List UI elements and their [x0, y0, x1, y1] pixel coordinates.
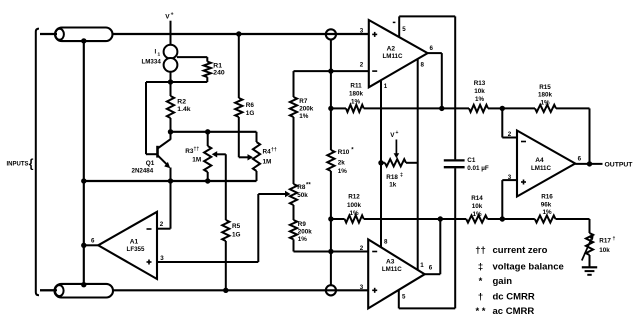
A2 pin2 wire [331, 70, 369, 72]
op-amp A1 LF355 [98, 212, 157, 279]
node string R11 [328, 106, 333, 111]
svg-text:R8: R8 [297, 184, 306, 191]
node I1 R1 R2 junction [168, 79, 173, 84]
ground [582, 266, 597, 268]
wire R1 bottom [206, 77, 208, 82]
svg-text:6: 6 [578, 155, 582, 162]
A2 pin 1 lead [380, 81, 382, 248]
svg-text:R6: R6 [246, 102, 255, 109]
A2 pin 5 lead [398, 16, 400, 36]
R17 arrow [582, 239, 592, 261]
svg-text:††: †† [194, 147, 200, 153]
A1 pin 3 wire [157, 261, 258, 263]
svg-text:10k: 10k [474, 88, 485, 95]
svg-text:1: 1 [158, 52, 161, 58]
svg-text:10k: 10k [472, 203, 483, 210]
svg-text:1G: 1G [246, 110, 255, 117]
resistor R10 2k [327, 150, 334, 171]
svg-text:†: † [478, 291, 483, 302]
svg-text:2k: 2k [338, 160, 346, 167]
svg-text:R4: R4 [263, 148, 272, 155]
op-amp A4 LM11C [517, 131, 575, 197]
svg-text:I: I [155, 49, 157, 56]
wire divider string lower [330, 171, 332, 285]
A4 plus sign [521, 181, 526, 183]
svg-text:R12: R12 [348, 194, 360, 201]
A3 pin5 feedback loop [399, 307, 455, 309]
svg-text:+: + [171, 12, 174, 18]
svg-text:200k: 200k [298, 229, 313, 236]
op-amp A3 LM11C [368, 239, 425, 308]
svg-text:voltage balance: voltage balance [493, 261, 564, 272]
node coax1 shield tap [81, 38, 86, 43]
svg-text:1: 1 [420, 262, 424, 269]
svg-text:dc CMRR: dc CMRR [493, 291, 535, 302]
wire R8 to R9 [293, 205, 295, 220]
node A3 output [438, 216, 443, 221]
node string R12 [328, 216, 333, 221]
svg-text:1%: 1% [298, 236, 308, 243]
svg-text:2N2484: 2N2484 [132, 168, 154, 175]
wire R7 to R8 [293, 117, 295, 184]
svg-text:1%: 1% [349, 210, 359, 217]
coax shield input 1 [55, 28, 113, 42]
svg-text:‡: ‡ [400, 172, 403, 178]
A2 minus sign [372, 70, 377, 72]
A3 plus sign [372, 289, 377, 291]
svg-text:R9: R9 [298, 221, 307, 228]
wire R9 bottom to A3 pin2 [293, 239, 295, 251]
A1 output wire [84, 244, 98, 246]
rheostat R17 [586, 233, 593, 255]
input bracket [36, 29, 39, 296]
svg-text:6: 6 [429, 264, 433, 271]
svg-text:1G: 1G [232, 231, 241, 238]
wire guard shield line [83, 41, 85, 285]
svg-text:LM11C: LM11C [382, 266, 402, 273]
svg-text:8: 8 [384, 239, 388, 246]
svg-text:gain: gain [493, 276, 513, 287]
svg-text:ac CMRR: ac CMRR [493, 306, 535, 317]
svg-text:R7: R7 [299, 98, 308, 105]
svg-text:Q1: Q1 [146, 160, 155, 167]
resistor R2 [170, 82, 172, 96]
A1 plus sign [147, 261, 152, 263]
svg-text:96k: 96k [541, 202, 552, 209]
svg-text:8: 8 [421, 61, 425, 68]
capacitor C1 [444, 159, 465, 161]
svg-text:1M: 1M [192, 157, 201, 164]
svg-text:1k: 1k [389, 181, 397, 188]
A3 pin 5 lead [398, 290, 400, 308]
svg-text:R15: R15 [539, 84, 551, 91]
balance mark A2 [393, 21, 396, 23]
svg-text:2: 2 [508, 131, 512, 138]
node string A2 pin2 [328, 68, 333, 73]
svg-text:* *: * * [475, 306, 485, 317]
svg-text:*: * [351, 147, 354, 153]
wire node to Q1 base [146, 81, 171, 83]
resistor R16 [502, 218, 535, 220]
wire R7 top [293, 71, 295, 97]
svg-text:†: † [613, 236, 616, 242]
wire R16 corner to R17 [589, 219, 591, 233]
node output [587, 161, 592, 166]
svg-text:1%: 1% [338, 168, 348, 175]
svg-text:C1: C1 [467, 157, 476, 164]
svg-text:180k: 180k [349, 90, 364, 97]
resistor R13 [469, 105, 488, 112]
svg-text:10k: 10k [599, 247, 610, 254]
svg-text:‡: ‡ [478, 261, 483, 272]
svg-text:*: * [479, 276, 483, 287]
transistor Q1 [156, 146, 159, 158]
node A1 output on guard [81, 243, 86, 248]
svg-text:1%: 1% [475, 96, 485, 103]
potentiometer R8 50k [290, 184, 297, 205]
svg-text:R18: R18 [386, 174, 398, 181]
svg-text:R11: R11 [350, 83, 362, 90]
svg-text:A1: A1 [130, 239, 139, 246]
R3 wiper arrow [212, 151, 218, 157]
svg-text:1M: 1M [263, 159, 272, 166]
svg-text:6: 6 [91, 237, 95, 244]
node string A3 pin2 [328, 249, 333, 254]
svg-text:1%: 1% [472, 211, 482, 218]
C1 bottom lead [454, 168, 456, 308]
wire bottom input rail [40, 289, 368, 291]
node Q1 emitter on rail [168, 178, 173, 183]
svg-text:0.01 µF: 0.01 µF [467, 165, 489, 172]
resistor R18 1k [381, 162, 385, 164]
A4 minus sign [521, 141, 526, 143]
resistor R7 [290, 97, 297, 117]
svg-text:R10: R10 [338, 149, 350, 156]
svg-text:240: 240 [213, 70, 225, 77]
A4 pin3 wire [501, 180, 503, 219]
svg-text:R1: R1 [213, 62, 222, 69]
wire collector rail [171, 131, 257, 133]
svg-text:1%: 1% [299, 113, 309, 120]
svg-text:1%: 1% [542, 209, 552, 216]
wire I1 bottom lead [170, 72, 172, 82]
svg-text:R5: R5 [232, 223, 241, 230]
resistor R11 [331, 107, 346, 109]
svg-text:3: 3 [160, 255, 164, 262]
svg-text:LM334: LM334 [142, 59, 162, 66]
svg-text:R13: R13 [474, 80, 486, 87]
svg-text:††: †† [271, 147, 277, 153]
wire Q1 emitter down [170, 168, 172, 229]
svg-text:5: 5 [402, 26, 406, 33]
svg-text:A4: A4 [535, 157, 544, 164]
svg-text:2: 2 [160, 221, 164, 228]
svg-text:5: 5 [402, 293, 406, 300]
svg-text:**: ** [306, 183, 311, 189]
A1 pin3 arrow to R8 wiper [285, 191, 291, 197]
svg-text:R17: R17 [599, 238, 611, 245]
resistor R1 [204, 62, 211, 78]
A3 minus sign [372, 251, 377, 253]
svg-text:R16: R16 [541, 194, 553, 201]
C1 top lead [454, 16, 456, 159]
svg-text:50k: 50k [297, 192, 308, 199]
resistor R9 [290, 220, 297, 239]
svg-text:LF355: LF355 [127, 246, 145, 253]
svg-text:R2: R2 [177, 99, 186, 106]
node R14 R16 junction [500, 216, 505, 221]
node coax2 shield tap [81, 282, 86, 287]
wire divider string upper [330, 40, 332, 151]
svg-text:LM11C: LM11C [531, 165, 551, 172]
svg-text:A3: A3 [386, 259, 395, 266]
coax shield input 2 [55, 284, 114, 298]
node R3 top [205, 129, 210, 134]
resistor R5 [225, 154, 227, 220]
svg-text:1.4k: 1.4k [177, 106, 190, 113]
A2 pin 8 lead [417, 59, 419, 270]
node guard-emitter rail [81, 178, 86, 183]
svg-text:200k: 200k [299, 106, 314, 113]
current source I1 LM334 [164, 45, 178, 59]
svg-text:3: 3 [508, 174, 512, 181]
svg-text:6: 6 [430, 45, 434, 52]
wire I1 mid tap to R1 [177, 56, 207, 58]
A2 pin5 feedback loop [399, 15, 455, 17]
resistor R14 [466, 215, 487, 222]
svg-text:††: †† [475, 245, 486, 256]
svg-text:current zero: current zero [493, 245, 548, 256]
A1 minus sign [147, 228, 152, 230]
svg-text:100k: 100k [347, 202, 362, 209]
svg-text:1%: 1% [540, 100, 550, 107]
svg-text:2: 2 [360, 245, 364, 252]
node R5 bottom [223, 288, 228, 293]
svg-text:180k: 180k [538, 92, 553, 99]
node R3 bottom [205, 178, 210, 183]
A2 plus sign [372, 33, 377, 35]
svg-text:INPUTS: INPUTS [7, 162, 29, 168]
resistor R6 [238, 34, 240, 98]
op-amp A2 LM11C [369, 20, 428, 87]
A2 output wire [428, 52, 442, 54]
resistor R15 [502, 107, 535, 109]
svg-text:3: 3 [360, 28, 364, 35]
wire emitter rail [84, 180, 257, 182]
node R18 left [378, 160, 383, 165]
A3 output wire [425, 273, 441, 275]
svg-text:{: { [29, 157, 34, 171]
svg-text:+: + [396, 130, 399, 136]
svg-text:R14: R14 [471, 195, 483, 202]
svg-text:3: 3 [360, 284, 364, 291]
svg-text:A2: A2 [387, 45, 396, 52]
A1 pin 2 wire [157, 228, 171, 230]
svg-text:LM11C: LM11C [383, 53, 403, 60]
node A2 output [439, 106, 444, 111]
A4 pin2 wire [501, 108, 503, 137]
svg-text:OUTPUT: OUTPUT [605, 162, 634, 169]
terminal circle top [326, 29, 336, 39]
potentiometer R4 [256, 132, 258, 142]
node R6 top [236, 31, 241, 36]
svg-text:1: 1 [384, 83, 388, 90]
svg-text:V: V [165, 14, 170, 21]
A4 output wire [575, 163, 602, 165]
resistor R12 [331, 218, 345, 220]
svg-text:1%: 1% [351, 98, 361, 105]
potentiometer R3 [207, 132, 209, 146]
wire top input rail [40, 33, 369, 35]
node Q1 collector junction [168, 129, 173, 134]
R4 wiper arrow [248, 154, 254, 160]
terminal circle bottom [326, 285, 336, 295]
svg-text:2: 2 [360, 61, 364, 68]
node R13 R15 junction [500, 106, 505, 111]
wire R15 to output [589, 108, 591, 163]
